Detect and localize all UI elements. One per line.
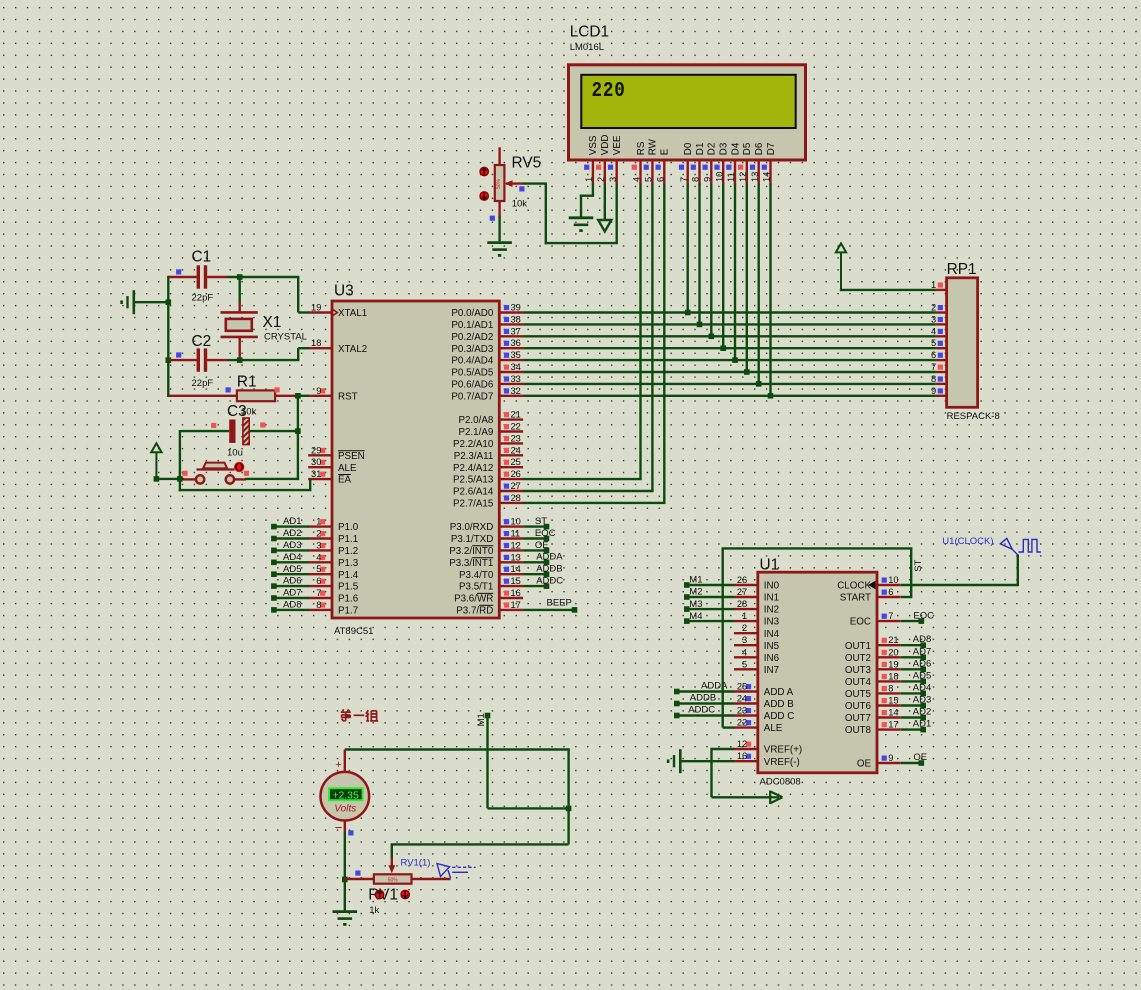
capacitor C3 body (electrolytic) [181,418,297,445]
LCD pin 8 D1 (stub, name, state square, number) [691,143,706,185]
pushbutton (reset) body [196,463,235,484]
svg-text:ADD A: ADD A [764,687,794,698]
svg-text:P0.4/AD4: P0.4/AD4 [451,356,493,367]
svg-text:ADDA: ADDA [701,680,728,691]
svg-text:VDD: VDD [600,135,611,156]
svg-text:EA: EA [338,475,352,486]
wire VSS (LCD pin1 to ground) [580,184,594,218]
wire P0.6 bus (U3 pin 33 to RP1 pin 8) [523,383,936,385]
U3 pin 26 P2.5/A13 [453,469,523,486]
U3 pin 23 P2.2/A10 [453,433,523,450]
wire C1 to XTAL1 [227,277,309,313]
svg-text:12: 12 [737,739,747,749]
U3 pin 19 XTAL1 [308,303,367,320]
wire net AD5 (U1 OUT4) [901,670,931,684]
svg-text:7: 7 [888,611,893,621]
U1 pin 24 ADD B [734,694,794,711]
wire C3-left rail vertical [179,430,181,491]
U3 pin 12 P3.2/INT0 [449,540,523,557]
IC U1 body (ADC0808) [758,572,877,773]
svg-text:IN6: IN6 [764,653,780,664]
svg-text:P1.1: P1.1 [338,534,358,545]
wire net AD1 (U1 OUT8) [901,719,931,733]
wire net AD8 (U3 P1.7) [271,600,309,613]
svg-text:RESPACK-8: RESPACK-8 [947,411,1000,422]
svg-text:9: 9 [316,386,321,396]
svg-text:18: 18 [888,671,898,681]
svg-text:P3.3/INT1: P3.3/INT1 [449,558,493,569]
wire net AD3 (U1 OUT6) [901,695,931,709]
svg-text:D5: D5 [742,142,753,155]
wire net ST (U3 pin 10) [523,516,549,529]
U3 pin 36 P0.3/AD3 [451,338,523,355]
svg-text:ADDC: ADDC [536,576,563,587]
ground (LCD VSS) [569,218,594,231]
svg-text:18: 18 [311,338,321,348]
U3 pin 15 P3.5/T1 [459,576,523,593]
svg-text:12: 12 [738,172,748,182]
RP1 pin 4 [931,326,947,336]
junction D4/P0.4 [732,357,738,363]
wire VDD (LCD pin2) [604,184,606,209]
svg-text:37: 37 [511,326,521,336]
svg-text:4: 4 [931,326,936,336]
capacitor C1 body [169,265,227,288]
svg-text:ADDC: ADDC [688,704,715,715]
wire net M3 (U1 IN2) [684,599,734,612]
svg-text:P1.7: P1.7 [338,606,358,617]
pin state square (C1 left) [176,269,181,274]
svg-text:IN4: IN4 [764,629,780,640]
U3 pin 38 P0.1/AD1 [451,314,523,331]
power symbol (VCC arrow, RP1) [836,243,846,291]
svg-text:23: 23 [511,433,521,443]
potentiometer RV5 adjust button [480,167,488,175]
U3 pin 2 P1.1 [308,529,358,546]
svg-text:24: 24 [737,694,747,704]
wire net OE (U1 pin9) [901,752,927,766]
U1 pin 22 ALE [734,718,783,735]
svg-text:14: 14 [762,172,772,182]
pin state square (R1 right) [275,387,280,392]
RP1 pin 7 [931,362,947,372]
svg-text:1: 1 [931,280,936,290]
svg-text:CRYSTAL: CRYSTAL [264,332,307,343]
wire P0.3 bus (U3 pin 36 to RP1 pin 5) [523,347,936,349]
wire P0.5 bus (U3 pin 34 to RP1 pin 7) [523,371,936,373]
svg-text:OUT3: OUT3 [845,665,872,676]
svg-text:2: 2 [931,303,936,313]
svg-text:C1: C1 [192,249,212,266]
svg-text:14: 14 [888,708,898,718]
U1 pin 2 IN4 [734,623,780,640]
potentiometer RV1 body [345,874,451,883]
svg-text:12: 12 [511,540,521,550]
svg-text:24: 24 [511,445,521,455]
wire D3 (LCD pin10 down to P0.3 bus) [722,184,724,350]
svg-text:P1.5: P1.5 [338,582,359,593]
svg-text:27: 27 [511,481,521,491]
svg-text:220: 220 [592,79,626,103]
voltmeter body [321,750,370,834]
svg-text:1: 1 [316,517,321,527]
svg-text:−: − [335,820,343,835]
svg-text:IN1: IN1 [764,593,779,604]
wire P0.2 bus (U3 pin 37 to RP1 pin 4) [523,335,936,337]
svg-text:7: 7 [679,177,689,182]
wire net AD7 (U1 OUT2) [901,646,931,660]
svg-text:C2: C2 [192,333,212,350]
svg-text:31: 31 [311,469,321,479]
svg-text:BEEP: BEEP [547,598,572,609]
svg-text:4: 4 [316,552,321,562]
pin state square (button left) [182,471,187,476]
svg-text:OUT5: OUT5 [845,689,872,700]
RP1 pin 5 [931,338,947,348]
wire net ADDA (U1) [674,680,734,694]
junction M1/meter loop [566,806,572,812]
pin state square (RV5 wiper) [519,186,524,191]
wire net AD8 (U1 OUT1) [901,634,931,648]
svg-text:X1: X1 [263,314,282,331]
svg-text:35: 35 [511,350,521,360]
wire net M4 (U1 IN3) [684,611,734,624]
svg-text:D0: D0 [683,142,694,155]
wire net EOC (U1 pin7) [901,610,934,624]
svg-text:ALE: ALE [764,723,783,734]
svg-text:3: 3 [931,314,936,324]
U3 pin 31 EA [308,469,351,486]
svg-text:16: 16 [737,751,747,761]
svg-text:22pF: 22pF [192,293,214,304]
svg-text:9: 9 [888,753,893,763]
svg-text:11: 11 [726,172,736,182]
svg-text:P0.1/AD1: P0.1/AD1 [451,320,493,331]
svg-text:7: 7 [316,588,321,598]
wire ST loop (START/ALE) [722,548,913,727]
svg-text:23: 23 [737,706,747,716]
svg-text:8: 8 [316,600,321,610]
svg-text:39: 39 [511,303,521,313]
RP1 pin 6 [931,350,947,360]
U3 pin 29 PSEN [308,445,365,462]
pin state square (button right) [244,471,249,476]
svg-text:M1: M1 [689,575,702,586]
junction button-left rail [177,476,183,482]
U1 pin 8 OUT5 [845,683,901,700]
U3 pin 8 P1.7 [308,600,358,617]
svg-text:AT89C51: AT89C51 [334,626,373,637]
svg-text:ADDB: ADDB [536,564,562,575]
svg-text:ADDA: ADDA [536,552,563,563]
svg-text:AD3: AD3 [913,695,931,706]
svg-text:D4: D4 [730,142,741,155]
wire net ADDC (U1) [674,704,734,718]
U3 pin 14 P3.4/T0 [459,564,523,581]
power terminal (VDD, arrow down) [598,205,611,232]
LCD pin 10 D3 (stub, name, state square, number) [714,142,729,184]
svg-text:ADD B: ADD B [764,699,794,710]
RP1 pin 2 [931,303,947,313]
LCD pin 7 D0 (stub, name, state square, number) [679,142,694,184]
svg-text:10: 10 [714,172,724,182]
wire net BEEP (U3 pin 17) [523,598,577,613]
svg-text:E: E [660,148,671,155]
wire VREF(+) [712,748,771,798]
U1 pin 16 VREF(-) [734,751,800,768]
wire net AD4 (U1 OUT5) [901,682,931,696]
wire net ADDA (U3 pin 13) [523,552,563,565]
U3 pin 6 P1.5 [308,576,359,593]
svg-text:D3: D3 [719,142,730,155]
svg-text:P0.5/AD5: P0.5/AD5 [451,368,493,379]
svg-text:3: 3 [608,177,618,182]
U3 pin 5 P1.4 [308,564,359,581]
svg-text:P2.7/A15: P2.7/A15 [453,499,494,510]
RP1 pin 3 [931,314,947,324]
svg-text:U3: U3 [334,283,354,300]
wire VREF(-) [682,760,735,762]
potentiometer RV5 body and wiper [495,147,523,218]
svg-text:P1.4: P1.4 [338,570,359,581]
U3 pin 22 P2.1/A9 [458,422,523,439]
U3 pin 21 P2.0/A8 [458,410,523,427]
wire P0.4 bus (U3 pin 35 to RP1 pin 6) [523,359,936,361]
U3 pin 1 P1.0 [308,517,359,534]
svg-text:9: 9 [931,386,936,396]
svg-text:25: 25 [511,457,521,467]
svg-text:15: 15 [888,696,898,706]
U1 pin 15 OUT6 [845,696,901,713]
U3 pin 17 P3.7/RD [456,600,523,617]
svg-text:6: 6 [931,350,936,360]
svg-text:AD7: AD7 [913,646,931,657]
potentiometer RV5 adjust button [480,192,488,200]
svg-text:4: 4 [632,177,642,182]
ground (RV5) [487,243,512,256]
wire net OE (U3 pin 12) [523,540,549,553]
svg-text:29: 29 [311,445,321,455]
svg-text:P1.6: P1.6 [338,594,359,605]
U3 pin 10 P3.0/RXD [450,517,523,534]
svg-text:P3.0/RXD: P3.0/RXD [450,522,494,533]
junction D5/P0.5 [744,369,750,375]
svg-text:22: 22 [737,718,747,728]
svg-text:P2.1/A9: P2.1/A9 [458,427,493,438]
label 第一组 (red group label) [341,709,378,721]
wire net ADDB (U1) [674,692,734,706]
svg-text:ST: ST [535,516,547,527]
U3 pin 37 P0.2/AD2 [451,326,523,343]
wire RW (LCD pin5 down to P2.6) [523,184,654,492]
svg-text:OUT7: OUT7 [845,713,871,724]
svg-text:D1: D1 [695,143,706,156]
svg-text:VEE: VEE [612,135,623,155]
U1 pin 25 ADD A [734,682,794,699]
junction R1/RST/reset-node [295,393,301,399]
svg-text:XTAL2: XTAL2 [338,344,367,355]
U3 pin 24 P2.3/A11 [454,445,523,462]
svg-text:ADD C: ADD C [764,711,794,722]
svg-text:OE: OE [913,752,927,763]
wire VCC to RP1 pin1 [840,289,936,291]
svg-text:36: 36 [511,338,521,348]
svg-text:1: 1 [742,611,747,621]
svg-text:10u: 10u [227,447,243,458]
pin state square (RV1 left) [355,871,360,876]
svg-text:10: 10 [511,517,521,527]
svg-text:AD6: AD6 [913,658,931,669]
U3 pin 33 P0.6/AD6 [451,374,523,391]
wire D4 (LCD pin11 down to P0.4 bus) [734,184,736,362]
U3 pin 16 P3.6/WR [454,588,523,605]
svg-text:RS: RS [636,141,647,155]
svg-text:2: 2 [596,177,606,182]
U3 pin 32 P0.7/AD7 [451,386,523,403]
svg-text:28: 28 [737,599,747,609]
junction D2/P0.2 [709,334,715,340]
svg-text:AD1: AD1 [913,719,931,730]
svg-text:26: 26 [511,469,521,479]
svg-text:M3: M3 [689,599,702,610]
wire net AD7 (U3 P1.6) [271,588,309,601]
svg-text:R1: R1 [237,373,257,390]
svg-text:RW: RW [648,138,659,155]
svg-text:VSS: VSS [588,135,599,155]
svg-text:OUT4: OUT4 [845,677,872,688]
junction C2/X1 bottom [237,357,243,363]
junction D1/P0.1 [697,322,703,328]
ground (left of C1/C2) [122,290,134,314]
wire button right to reset node [234,478,300,481]
junction D6/P0.6 [756,381,762,387]
pin state square (meter -) [348,830,353,835]
svg-text:P1.0: P1.0 [338,522,359,533]
svg-text:P0.2/AD2: P0.2/AD2 [451,332,493,343]
svg-text:15: 15 [511,576,521,586]
svg-text:XTAL1: XTAL1 [338,308,367,319]
svg-text:14: 14 [511,564,521,574]
U1 pin 1 IN3 [734,611,780,628]
wire net AD3 (U3 P1.2) [271,540,309,553]
U3 pin 3 P1.2 [308,540,358,557]
pin state square (C2 left) [176,352,181,357]
LCD LCD1 display text 220 [592,79,626,103]
RP1 pin 9 [931,386,947,396]
clock generator symbol [1000,538,1041,555]
svg-text:P2.5/A13: P2.5/A13 [453,475,494,486]
wire P0.7 bus (U3 pin 32 to RP1 pin 9) [523,395,936,397]
IC U3 body (AT89C51) [332,301,499,618]
svg-text:OUT6: OUT6 [845,701,872,712]
svg-text:5: 5 [316,564,321,574]
svg-text:P1.3: P1.3 [338,558,359,569]
svg-text:IN7: IN7 [764,665,779,676]
svg-text:P0.0/AD0: P0.0/AD0 [451,308,493,319]
wire net AD6 (U3 P1.5) [271,576,309,589]
wire net M1 (U1 IN0) [684,575,734,588]
LCD LCD1 body [569,65,806,160]
svg-text:IN5: IN5 [764,641,780,652]
svg-text:16: 16 [511,588,521,598]
svg-text:P2.2/A10: P2.2/A10 [453,439,494,450]
svg-text:START: START [840,593,871,604]
RP1 pin 8 [931,374,947,384]
svg-text:P0.7/AD7: P0.7/AD7 [451,391,493,402]
potentiometer RV1 adjust button [375,890,383,898]
LCD pin 3 VEE (stub, name, state square, number) [608,135,623,184]
svg-text:6: 6 [316,576,321,586]
svg-text:1k: 1k [369,905,379,916]
U1 pin 21 OUT1 [845,635,901,652]
wire D5 (LCD pin12 down to P0.5 bus) [746,184,748,374]
svg-text:20: 20 [888,647,898,657]
svg-text:6: 6 [888,587,893,597]
U1 pin 4 IN6 [734,647,780,664]
svg-text:VREF(+): VREF(+) [764,745,802,756]
LCD pin 1 VSS (stub, name, state square, number) [584,135,599,184]
svg-text:19: 19 [311,303,321,313]
svg-text:38: 38 [511,314,521,324]
svg-text:10k: 10k [512,198,528,209]
wire EA loop bottom [179,479,312,490]
junction reset node / C3 [295,428,301,434]
pin state square (RV5 bottom) [490,216,495,221]
wire meter to ground [344,833,346,912]
svg-text:P0.3/AD3: P0.3/AD3 [451,344,493,355]
svg-text:3: 3 [742,635,747,645]
U3 pin 30 ALE [308,457,357,474]
svg-text:P3.1/TXD: P3.1/TXD [451,534,493,545]
svg-text:U1(CLOCK): U1(CLOCK) [942,536,993,547]
U3 pin 39 P0.0/AD0 [451,303,523,320]
junction left rail / C2 [166,357,172,363]
svg-text:8: 8 [931,374,936,384]
svg-text:22pF: 22pF [192,378,214,389]
wire E (LCD pin6 down to P2.7) [523,184,666,503]
svg-text:4: 4 [742,647,747,657]
svg-text:1: 1 [584,177,594,182]
svg-text:RST: RST [338,391,358,402]
U1 pin 12 VREF(+) [734,739,802,756]
svg-text:P2.6/A14: P2.6/A14 [453,487,494,498]
svg-text:AD4: AD4 [283,552,301,563]
svg-text:ST: ST [913,559,924,571]
LCD pin 5 RW (stub, name, state square, number) [644,138,659,184]
svg-text:PSEN: PSEN [338,451,365,462]
svg-text:OUT1: OUT1 [845,641,871,652]
U1 pin 17 OUT8 [845,720,901,737]
ground (meter) [333,912,358,925]
pin state square (R1 left) [226,387,231,392]
svg-text:50%: 50% [496,178,502,189]
wire net M2 (U1 IN1) [684,587,734,600]
svg-text:34: 34 [511,362,521,372]
svg-text:M4: M4 [689,611,702,622]
svg-text:M2: M2 [689,587,702,598]
svg-text:21: 21 [888,635,898,645]
LCD pin 12 D5 (stub, name, state square, number) [738,142,753,184]
svg-text:8: 8 [888,683,893,693]
svg-text:P3.4/T0: P3.4/T0 [459,570,494,581]
svg-text:EOC: EOC [913,610,934,621]
U3 pin 18 XTAL2 [308,338,367,355]
svg-text:17: 17 [888,720,898,730]
wire R1 to RST [296,395,309,397]
svg-text:9: 9 [702,177,712,182]
voltage probe RV1(1) [437,864,476,879]
svg-text:AD1: AD1 [283,516,301,527]
